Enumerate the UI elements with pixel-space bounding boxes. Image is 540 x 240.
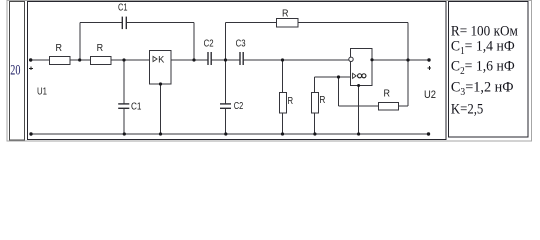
wire feedback bottom left [339, 105, 379, 107]
wire C1 feedback top left [80, 21, 122, 23]
wire vertical x408 output node [407, 22, 409, 106]
svg-text:C1: C1 [118, 3, 128, 14]
wire inverting input horizontal [315, 76, 351, 78]
svg-text:K=2,5: K=2,5 [451, 102, 483, 118]
plus mark output [427, 66, 431, 70]
wire node C down [338, 77, 340, 106]
capacitor C1 top [122, 17, 126, 30]
circuit frame [28, 2, 447, 140]
wire C3 to op-amp input [243, 59, 349, 61]
wire R1 to R2 [70, 59, 90, 61]
svg-text:R: R [319, 95, 325, 106]
node input terminal [29, 58, 32, 61]
wire C2 shunt lower [225, 108, 227, 134]
svg-text:U2: U2 [424, 89, 436, 101]
values panel box [449, 2, 529, 138]
node rail R1 [281, 132, 284, 135]
node output feedback tap [406, 58, 409, 61]
node C inverting input [337, 75, 340, 78]
node rail left terminal [29, 132, 32, 135]
node rail op-amp [357, 132, 360, 135]
resistor R2 [91, 43, 112, 65]
wire R shunt1 upper [282, 60, 284, 92]
wire feedback bottom right [399, 105, 408, 107]
wire R feedback top right [298, 21, 408, 23]
infinity symbol [358, 74, 362, 78]
node rail C2 [224, 132, 227, 135]
node op-amp output [370, 58, 373, 61]
wire C1 shunt lower [123, 108, 125, 134]
node C1 shunt top [122, 58, 125, 61]
svg-text:C1: C1 [131, 102, 142, 113]
left index column box [10, 2, 25, 141]
resistor R1 [50, 43, 71, 65]
node between R1 R2 [78, 58, 81, 61]
node op-amp ground pin top [357, 84, 360, 87]
wire R2 to K box [111, 59, 150, 61]
svg-text:R: R [288, 96, 294, 107]
wire K box to C2 [171, 59, 208, 61]
wire bottom ground rail [31, 133, 429, 135]
wire C1 feedback top right [126, 21, 194, 23]
svg-text:C2: C2 [204, 39, 214, 50]
svg-text:20: 20 [10, 63, 20, 79]
svg-text:C3=1,2 нФ: C3=1,2 нФ [451, 79, 514, 98]
plus mark input [29, 66, 33, 70]
wire K box ground pin [160, 84, 162, 134]
svg-text:R: R [282, 8, 289, 19]
amplifier U1 K box [150, 51, 172, 85]
capacitor C1 shunt [118, 104, 129, 108]
capacitor C2 shunt [220, 104, 231, 108]
node K ground pin top [159, 82, 162, 85]
wire R shunt2 upper [314, 77, 316, 92]
wire op-amp ground pin [358, 86, 360, 135]
svg-text:C2: C2 [234, 101, 244, 112]
wire R shunt2 lower [314, 113, 316, 134]
outer grey border [7, 1, 532, 142]
wire vertical x194 C1 loop down [193, 22, 195, 60]
svg-text:R: R [56, 43, 63, 54]
svg-text:C3: C3 [236, 39, 246, 50]
op-amp U2 box [349, 49, 372, 86]
wire C1 shunt upper [123, 60, 125, 104]
node rail K [159, 132, 162, 135]
node rail R2 [313, 132, 316, 135]
node C1 loop return [192, 58, 195, 61]
resistor R shunt1 [280, 93, 294, 114]
capacitor C3 series [240, 52, 243, 65]
inverting input bubble [349, 57, 353, 61]
svg-text:R= 100 кОм: R= 100 кОм [451, 24, 518, 40]
svg-text:K: K [158, 54, 164, 64]
node rail right terminal [427, 132, 430, 135]
wire op-amp output to terminal [372, 59, 429, 61]
svg-text:R: R [384, 89, 391, 100]
node R shunt1 top [281, 58, 284, 61]
wire R feedback top left [226, 21, 277, 23]
capacitor C2 series [208, 52, 211, 65]
wire R shunt1 lower [282, 113, 284, 134]
wire C2 to C3 [211, 59, 240, 61]
resistor R shunt2 [312, 93, 326, 114]
wire vertical x80 node A up [79, 22, 81, 60]
node output terminal [427, 58, 430, 61]
svg-text:R: R [97, 43, 104, 54]
node B C2-C3 [224, 58, 227, 61]
op-amp triangle mark [353, 73, 357, 78]
wire input to R1 [31, 59, 50, 61]
svg-text:U1: U1 [37, 87, 47, 98]
node rail C1 [123, 132, 126, 135]
wire C2 shunt upper [225, 60, 227, 104]
wire vertical x225.5 node B up [225, 22, 227, 60]
resistor R top feedback [277, 8, 299, 27]
resistor R feedback bottom [379, 89, 399, 111]
